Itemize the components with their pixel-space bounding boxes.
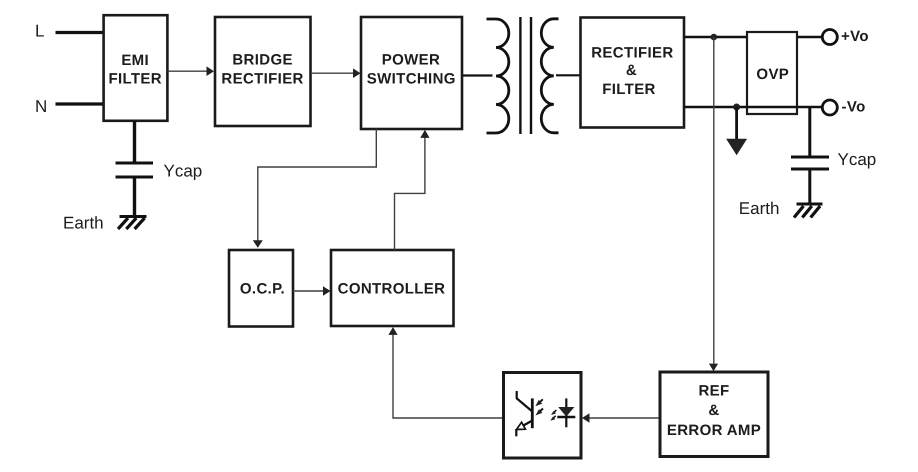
svg-text:FILTER: FILTER: [108, 71, 161, 88]
terminal -Vo: [822, 99, 865, 116]
svg-text:O.C.P.: O.C.P.: [240, 280, 285, 297]
svg-text:&: &: [626, 62, 637, 79]
capacitor Ycap (left): [116, 121, 154, 216]
ground earth (right): [794, 204, 823, 218]
junction dot on +V rail: [711, 34, 718, 41]
svg-text:Ycap: Ycap: [838, 150, 877, 169]
wire BRIDGE RECTIFIER to POWER SWITCHING: [311, 68, 361, 78]
svg-text:FILTER: FILTER: [602, 81, 655, 98]
svg-text:Ycap: Ycap: [164, 162, 203, 181]
wire CONTROLLER to POWER SWITCHING: [395, 130, 430, 250]
phototransistor emitter: [519, 421, 532, 429]
block POWER SWITCHING: [361, 17, 462, 129]
terminal +Vo: [822, 28, 869, 45]
wire N input: [56, 102, 105, 105]
svg-text:Earth: Earth: [739, 199, 780, 218]
wire +V output rail: [684, 36, 822, 38]
svg-text:&: &: [708, 402, 719, 419]
block O.C.P.: [229, 250, 293, 327]
capacitor Ycap (right): [791, 107, 829, 204]
secondary common down arrow: [726, 107, 747, 155]
svg-text:REF: REF: [698, 383, 729, 400]
wire L input: [56, 31, 105, 34]
block OVP: [747, 32, 797, 114]
svg-text:CONTROLLER: CONTROLLER: [338, 281, 446, 298]
optocoupler U1: [504, 373, 582, 459]
svg-text:POWER: POWER: [382, 52, 440, 69]
block REF & ERROR AMP: [660, 372, 768, 457]
svg-text:N: N: [35, 97, 47, 116]
svg-text:SWITCHING: SWITCHING: [367, 70, 456, 87]
svg-text:BRIDGE: BRIDGE: [232, 52, 292, 69]
svg-text:OVP: OVP: [756, 66, 789, 83]
wire -V output rail: [684, 106, 822, 109]
ground earth (left): [118, 217, 147, 230]
svg-text:L: L: [35, 22, 44, 41]
transformer T1 primary winding: [487, 19, 509, 133]
phototransistor collector: [517, 391, 533, 412]
svg-text:Earth: Earth: [63, 213, 104, 232]
svg-text:EMI: EMI: [121, 52, 149, 69]
wire O.C.P. to CONTROLLER: [293, 286, 331, 296]
wire transformer secondary to RECTIFIER & FILTER: [556, 74, 581, 76]
wire REF & ERROR AMP to optocoupler: [582, 413, 660, 423]
wire optocoupler to CONTROLLER: [388, 327, 503, 418]
svg-text:+Vo: +Vo: [841, 28, 869, 45]
wire +V rail to REF & ERROR AMP feedback: [709, 37, 718, 371]
wire POWER SWITCHING to transformer primary: [462, 74, 493, 76]
LED light arrows: [553, 410, 556, 413]
wire EMI FILTER to BRIDGE RECTIFIER: [168, 66, 215, 76]
transformer T1 core: [520, 17, 531, 134]
block RECTIFIER & FILTER: [581, 18, 685, 128]
svg-text:-Vo: -Vo: [842, 99, 866, 116]
wire POWER SWITCHING to O.C.P.: [253, 129, 376, 248]
wire -V rail through OVP: [747, 106, 797, 109]
junction dot on -V rail: [733, 104, 740, 111]
light arrows into transistor: [538, 399, 543, 404]
transformer T1 secondary winding: [541, 19, 558, 133]
phototransistor base bar: [531, 398, 534, 428]
block BRIDGE RECTIFIER: [215, 17, 311, 126]
LED D1: [565, 398, 567, 427]
svg-text:RECTIFIER: RECTIFIER: [221, 70, 303, 87]
block CONTROLLER: [331, 250, 454, 326]
block EMI FILTER: [104, 15, 168, 121]
svg-text:ERROR AMP: ERROR AMP: [667, 422, 761, 439]
svg-text:RECTIFIER: RECTIFIER: [591, 45, 673, 62]
